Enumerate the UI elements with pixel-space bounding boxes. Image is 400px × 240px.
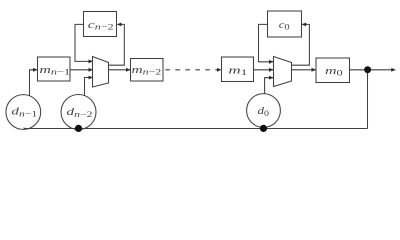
junction node under D n-2 <box>75 125 82 132</box>
wire M 0 output to final arrow <box>350 69 396 71</box>
junction node at output <box>364 66 371 73</box>
dashed wire M n-2 to M 1 <box>165 69 221 71</box>
register box M n-1 <box>38 57 71 81</box>
wire C 0 output loop to mux U2 top input <box>259 24 274 61</box>
register box M 0 <box>316 58 350 83</box>
wire C n-2 output loop to mux U1 top input <box>75 24 93 61</box>
mux U2 trapezoid <box>274 57 292 87</box>
junction node under D 0 <box>260 125 267 132</box>
wire feedback bus vertical from output node down <box>367 70 369 129</box>
wire mux U2 output to M 0 input <box>292 69 316 71</box>
mux U1 trapezoid <box>93 57 109 88</box>
input circle D n-1 <box>6 95 41 130</box>
register box M n-2 <box>131 59 164 82</box>
wire feedback bus horizontal bottom <box>24 128 368 130</box>
wire D n-1 stub to bus <box>23 128 25 129</box>
wire mux U1 output to M n-2 input <box>109 69 131 71</box>
wire D n-2 stub to bus <box>78 129 80 130</box>
input circle D 0 <box>247 94 281 128</box>
register box C n-2 <box>84 12 117 37</box>
wire D 0 stub to bus <box>263 127 265 129</box>
wire mux U2 feedback to C 0 right input <box>292 24 310 65</box>
register box M 1 <box>222 57 254 82</box>
wire D n-2 to mux U1 bottom input <box>85 78 93 96</box>
register box C 0 <box>268 11 302 37</box>
wire M n-1 output to mux U1 middle input <box>70 69 93 71</box>
wire D 0 to mux U2 bottom input <box>265 78 273 94</box>
input circle D n-2 <box>61 95 96 130</box>
wire M 1 output to mux U2 middle input <box>254 69 274 71</box>
wire mux U1 feedback to C n-2 right input <box>109 24 125 65</box>
wire D n-1 to M n-1 input <box>30 70 38 96</box>
